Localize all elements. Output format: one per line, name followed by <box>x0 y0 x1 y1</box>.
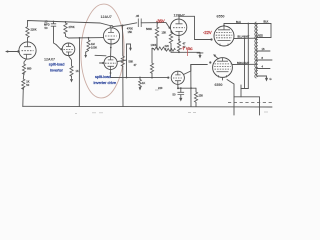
resistor R4 cathode V1V2 <box>68 56 79 79</box>
svg-text:BRN-WHT: BRN-WHT <box>237 61 250 65</box>
wire V8 screen tap <box>232 63 256 65</box>
svg-text:MFD: MFD <box>44 23 50 27</box>
svg-text:250: 250 <box>199 94 204 98</box>
annotation ellipse around split-load inverter <box>79 3 125 98</box>
resistor R2a cathode V1 chain <box>22 59 31 74</box>
capacitor C1 coupling <box>44 19 66 44</box>
blue note split-load inverter <box>49 62 65 73</box>
wire V3 cathode to V4 plate <box>110 43 112 56</box>
svg-text:220: 220 <box>165 44 170 48</box>
node V7 plate <box>223 25 225 27</box>
svg-text:inverter: inverter <box>50 68 64 73</box>
input terminal arrow <box>5 50 19 52</box>
transformer tap 8 ohm <box>257 56 273 60</box>
svg-text:G: G <box>270 77 272 81</box>
resistor R11 below bus <box>139 78 146 91</box>
wire V7 screen tap <box>234 37 257 39</box>
svg-text:680: 680 <box>27 67 32 71</box>
node grid V2 <box>60 48 62 50</box>
svg-text:1K: 1K <box>76 69 79 73</box>
wire screen drop L <box>247 24 249 89</box>
wire bias line with center ground <box>171 51 200 53</box>
node V3 plate cap <box>110 26 113 29</box>
svg-text:56K: 56K <box>129 60 134 64</box>
svg-text:15K: 15K <box>128 30 133 34</box>
wire vertical A <box>122 26 124 57</box>
tube V3 12AU7a <box>103 28 119 44</box>
svg-text:270K: 270K <box>69 25 75 29</box>
svg-text:split-load: split-load <box>95 74 111 79</box>
transformer tap BLK <box>257 20 272 38</box>
wire V8 plate up-left <box>213 54 218 59</box>
svg-text:220: 220 <box>158 86 163 90</box>
wire top rail <box>28 21 112 27</box>
wire vertical B <box>117 44 130 78</box>
tube V7 6550 upper <box>214 26 234 46</box>
resistor R9 vertical <box>162 31 173 53</box>
resistor R1 plate V1 <box>26 25 37 42</box>
wire V2 plate to V3 grid <box>69 37 104 39</box>
wire V5 plate to V7 grid <box>179 16 212 39</box>
node plate junction <box>79 37 81 39</box>
resistor R8 horizontal <box>151 43 176 51</box>
ground arrow A <box>84 52 87 58</box>
ground arrow B <box>70 79 73 82</box>
resistor R6 on vertical A <box>121 56 133 107</box>
wire feedback drop <box>78 38 80 107</box>
svg-text:560K: 560K <box>146 27 152 31</box>
blue note split-load inverter drive <box>94 74 117 85</box>
wire left drop to bus <box>22 88 25 107</box>
ground bus bottom <box>23 105 272 108</box>
resistor R12 cathode V5 <box>177 36 186 52</box>
svg-text:BLU: BLU <box>236 20 241 24</box>
svg-text:BLK: BLK <box>264 20 269 24</box>
svg-text:1K: 1K <box>142 81 145 85</box>
resistor R3 plate V2 <box>64 22 75 38</box>
wire inverter output bus <box>110 77 168 79</box>
svg-text:RED: RED <box>258 34 264 38</box>
node grid V1 <box>17 50 19 52</box>
tube V1 12AX7a <box>19 42 36 59</box>
capacitor C3 cathode bypass <box>173 87 185 101</box>
node V6 grid <box>167 77 169 79</box>
transformer tap common ground <box>257 76 272 82</box>
svg-text:220K: 220K <box>31 28 37 32</box>
ground arrow D <box>197 53 203 59</box>
transformer T1 primary winding <box>255 22 258 78</box>
resistor R13 cathode 6550 <box>194 88 203 106</box>
svg-text:1M: 1M <box>91 42 95 46</box>
resistor R5 grid leak V3 <box>86 38 98 52</box>
svg-text:12AU7: 12AU7 <box>101 15 112 19</box>
resistor R7 grid leak 12BH7 <box>146 23 159 49</box>
svg-text:-22V: -22V <box>203 30 212 35</box>
capacitor C2 coupling to 12BH7 <box>136 14 164 27</box>
ground arrow C <box>129 44 132 51</box>
svg-text:100K: 100K <box>91 46 97 50</box>
wire V6 cathode <box>178 84 196 88</box>
dashed heater line <box>228 102 272 104</box>
wire V3 plate to coupling cap <box>113 23 137 27</box>
svg-text:470K: 470K <box>127 27 133 31</box>
svg-text:100K: 100K <box>151 43 157 47</box>
tube V8 6550 lower <box>213 58 233 78</box>
wire V7 plate to transformer <box>224 24 257 27</box>
node A <box>122 25 124 27</box>
resistor R10 to bus <box>134 49 154 78</box>
tube V4 12AU7b split-load <box>104 56 117 70</box>
transformer tap 4 ohm <box>257 65 271 69</box>
red check mark <box>187 50 189 56</box>
svg-text:15K: 15K <box>162 31 167 35</box>
node V4 grid <box>102 62 104 64</box>
wire V4 plate side tap <box>95 54 106 57</box>
svg-text:6550: 6550 <box>215 83 223 87</box>
wire vertical drop <box>190 65 192 107</box>
wire V8 cathode pins down <box>222 77 224 80</box>
transformer tap 16 ohm <box>257 47 271 51</box>
wire to V5 grid <box>163 23 169 28</box>
svg-text:inverter drive: inverter drive <box>94 80 117 85</box>
faint print artifacts <box>75 90 268 114</box>
tube V5 12BH7a <box>170 19 186 36</box>
svg-text:-7 Vac: -7 Vac <box>181 46 193 51</box>
wire V6 plate to V8 grid <box>184 65 208 75</box>
resistor R2b <box>22 73 30 90</box>
tube V2 12AX7b <box>62 43 75 56</box>
svg-text:.05: .05 <box>136 14 140 18</box>
svg-text:6550: 6550 <box>217 15 225 19</box>
wire V2 grid <box>56 45 62 50</box>
tube V6 12BH7b <box>171 71 184 84</box>
svg-text:split-load: split-load <box>49 62 65 67</box>
wire V4 cathode down <box>109 70 111 78</box>
wire screen drop K <box>244 38 246 88</box>
